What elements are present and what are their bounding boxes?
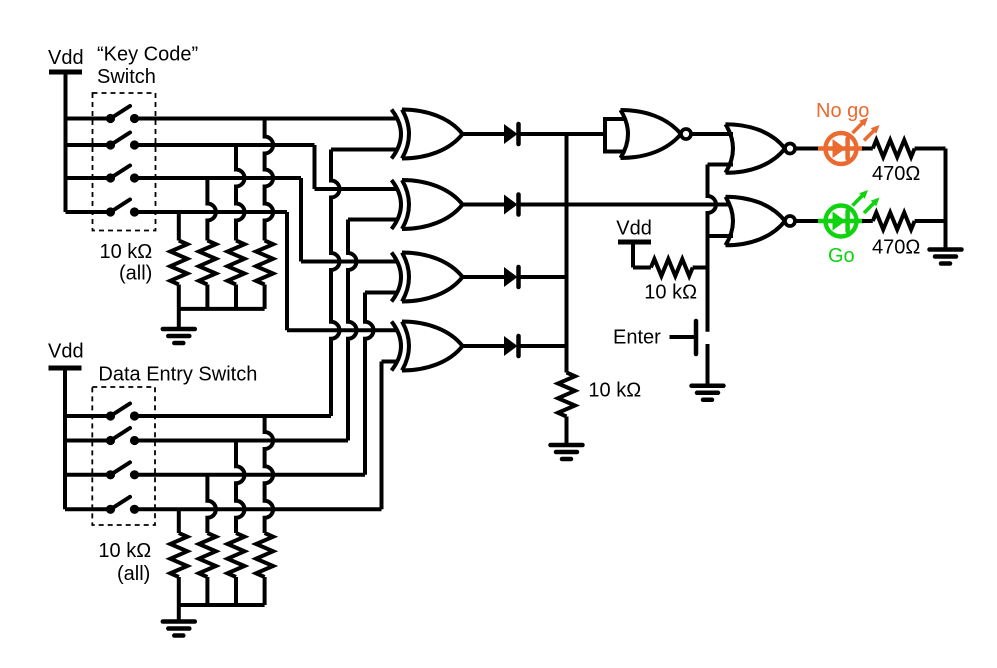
power Vdd bar (key code side) [49,70,82,75]
wire D4 riser to XOR4 input B [380,362,384,510]
wire diode D1 to bus and NOR1 [519,132,606,136]
wire K4 to XOR4 input A [287,328,398,332]
op NOR gate U7 (Go driver) [726,197,734,246]
diode D1 [504,124,518,144]
resistor R3 10k (bus pulldown) [558,373,575,417]
svg-text:(all): (all) [119,263,152,285]
switch box S2 (dashed outline) [92,387,155,525]
wire D4 row to riser [135,507,382,511]
resistor R4 10k (enter pullup) [651,259,693,276]
diode D4 [504,336,518,356]
resistor R2a 10k (data bit4 pulldown) [177,509,181,533]
svg-text:No go: No go [816,100,869,122]
switch S1c (key code bit 3) [66,176,111,180]
wire K4 row to corner [135,210,288,214]
wire data rail to ground stem [177,605,181,622]
svg-text:470Ω: 470Ω [872,163,920,185]
LED D6 Go (green) [826,206,857,237]
wire XOR2 output to diode [463,203,505,207]
wire diode D4 to bus [519,344,567,348]
wire D3 row to riser [135,473,366,477]
resistor R1b 10k (key bit3 pulldown) [207,178,216,241]
switch S2c (data bit 3) [65,473,111,477]
op NOR gate U6 (No go driver) [726,124,734,173]
wire D2 row to riser [135,439,349,443]
wire right rail vertical [944,149,948,250]
svg-text:Vdd: Vdd [48,341,84,363]
wire K2 to XOR2 input A [315,187,399,191]
wire K3 to XOR3 input A [301,260,398,264]
svg-text:Go: Go [828,245,855,267]
wire K3 row to corner [135,176,302,180]
svg-text:Vdd: Vdd [616,217,652,239]
ground (data resistor bank) [163,619,195,624]
switch box S1 (dashed outline) [93,93,156,231]
svg-text:470Ω: 470Ω [872,237,920,259]
wire Enter label to actuator [670,335,695,339]
wire NOR1 output to NOR2 input A [692,132,733,136]
op NOR gate U5 (inverter) [621,110,629,158]
wire LED2 to resistor [862,219,873,223]
resistor R2c 10k (data bit2 pulldown) [236,441,245,534]
resistor R6 470 ohm [873,213,915,230]
wire NOR3 output to LED2 [796,219,820,223]
op NOR1 input box [605,119,624,152]
svg-text:(all): (all) [117,563,150,585]
wire NOR2 output to LED1 [796,147,820,151]
switch S1b (key code bit 2) [66,143,111,147]
wire K2 drop [313,145,317,189]
resistor R1d 10k (key bit1 pulldown) [265,119,273,241]
svg-text:10 kΩ: 10 kΩ [644,282,697,304]
svg-text:Data Entry Switch: Data Entry Switch [98,364,257,386]
wire Enter node to NOR3 input B [708,234,734,238]
op XOR gate U2 [392,180,402,229]
ground (key resistor bank) [163,327,195,332]
power Vdd bar (data side) [49,366,82,371]
op XOR gate U4 [392,322,402,371]
switch S2b (data bit 2) [65,439,111,443]
wire Enter node corner to NOR2 input B [708,163,734,167]
wire K1 row to XOR1 input A [135,117,399,121]
wire D2 riser to XOR2 input B [348,220,357,441]
wire Enter node vertical [708,165,717,332]
svg-text:“Key Code”: “Key Code” [97,44,198,66]
power Vdd bar (enter side) [618,240,651,245]
wire diode D3 to bus [519,275,567,279]
wire XOR4 output to diode [463,344,505,348]
wire Vdd vertical feed (data side) [63,368,67,509]
svg-text:10 kΩ: 10 kΩ [100,241,153,263]
wire key rail to ground stem [177,309,181,329]
switch S2d (data bit 4) [65,507,111,511]
wire resistor R6 to right rail [915,219,946,223]
wire K4 drop [285,212,289,330]
ground (bus pulldown) [551,443,583,448]
wire resistor R5 to right rail [915,147,946,151]
wire LED1 to resistor [862,147,873,151]
resistor R2b 10k (data bit3 pulldown) [207,475,216,533]
svg-text:10 kΩ: 10 kΩ [98,540,151,562]
switch S2a (data bit 1) [65,414,111,418]
switch S3 Enter pushbutton actuator [694,321,699,354]
wire summing bus vertical [565,134,569,373]
wire Vdd vertical feed (key code side) [64,72,68,212]
resistor R5 470 ohm [873,140,915,157]
switch S1a (key code bit 1) [66,117,111,121]
svg-text:Vdd: Vdd [48,47,84,69]
wire K3 drop [299,178,303,262]
wire Vdd step down [631,242,635,268]
wire K2 row to corner [135,143,315,147]
diode D3 [504,267,518,287]
op XOR gate U3 [392,253,402,302]
diode D2 [504,195,518,215]
ground (LED return) [930,247,962,252]
switch S1d (key code bit 4) [66,210,111,214]
resistor R1a 10k (key bit4 pulldown) [177,212,181,241]
svg-text:Enter: Enter [613,327,661,349]
wire D1 row to riser [135,414,332,418]
wire D1 riser to XOR1 input B [331,150,340,417]
wire D3 riser to XOR3 input B [365,293,374,475]
resistor R2d 10k (data bit1 pulldown) [265,416,273,533]
op XOR gate U1 [392,110,402,159]
resistor R1c 10k (key bit2 pulldown) [236,145,245,241]
wire XOR3 output to diode [463,275,505,279]
LED D5 No go (orange) [826,133,857,164]
svg-text:10 kΩ: 10 kΩ [588,380,641,402]
wire pushbutton lower lead [706,344,710,385]
svg-text:Switch: Switch [97,66,156,88]
wire key resistor bottom rail [179,307,265,311]
ground (enter switch) [692,384,724,389]
wire XOR1 output to diode [463,132,505,136]
wire data resistor bottom rail [179,603,265,607]
wire diode D2 to bus and NOR3 input A [519,203,732,207]
